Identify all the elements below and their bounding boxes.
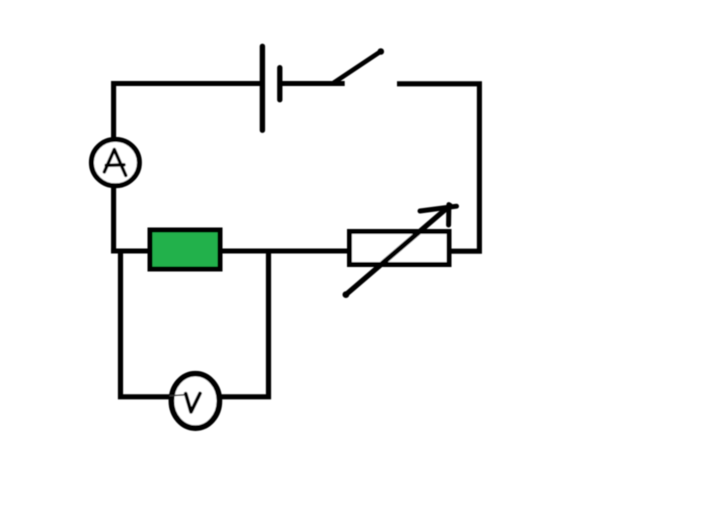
wire voltmeter branch loop [121,249,269,397]
battery B1 positive plate [260,46,265,130]
wire switch to right side down to rheostat [397,84,479,251]
wire battery to switch [280,81,345,86]
rheostat R2 (variable resistor) [343,205,457,298]
switch S1 (open lever) [333,48,384,83]
wire top-left: battery to ammeter branch corner [114,84,262,254]
voltmeter V1 [170,374,220,428]
resistor R1 (green) [150,230,220,269]
ammeter A1 [91,139,139,185]
wire mid horizontal: node to resistor to rheostat [111,249,352,254]
battery B1 negative plate [277,68,282,100]
